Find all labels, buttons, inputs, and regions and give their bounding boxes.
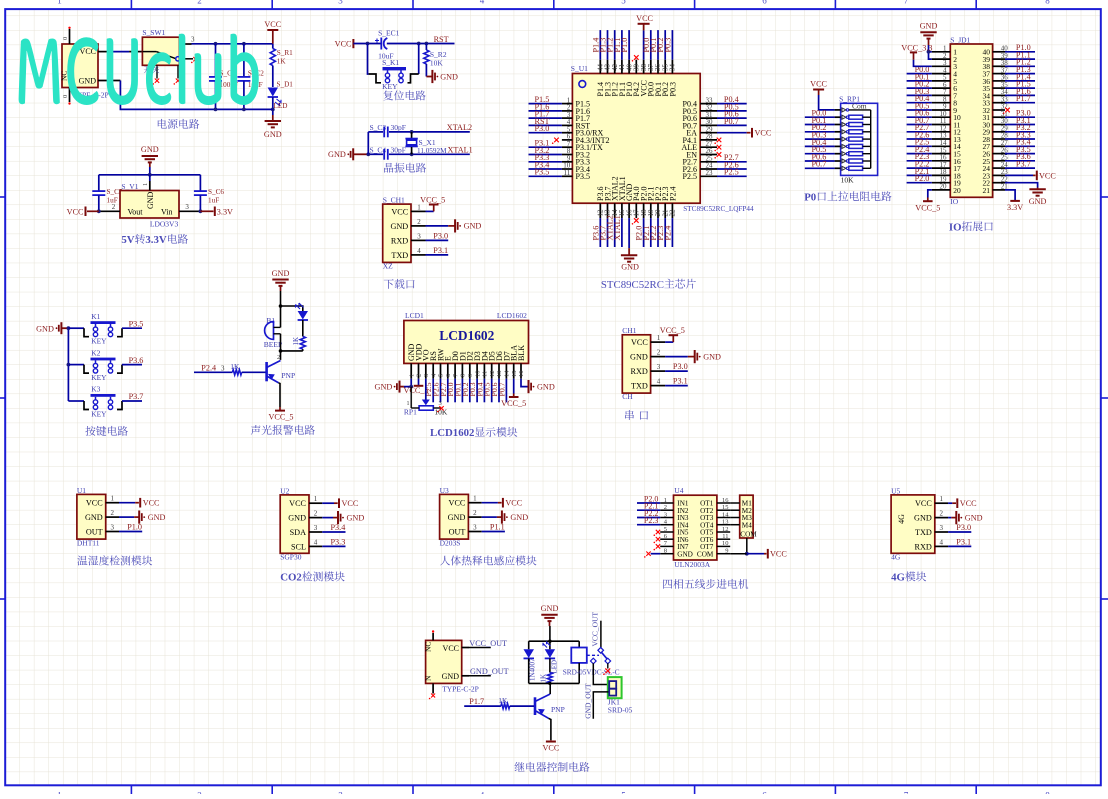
wire reset rail (353, 43, 381, 45)
wire net P3.3 JD1 (1005, 138, 1035, 140)
wire net P1.7 (529, 117, 562, 119)
svg-text:4: 4 (417, 247, 421, 255)
svg-text:TYPE-C-2P: TYPE-C-2P (442, 685, 479, 694)
resistor S_R2 10K (425, 44, 427, 51)
wire net P0.4 JD1 (907, 102, 932, 104)
pin 1 GND of LDO (149, 181, 151, 191)
svg-text:DHT11: DHT11 (77, 539, 100, 548)
wire right hook K2 (117, 365, 122, 374)
pin 41 P1.1 top of U1 (621, 60, 623, 74)
svg-text:P3.0: P3.0 (433, 231, 448, 240)
caption download port (384, 279, 394, 289)
svg-text:1K: 1K (277, 58, 287, 66)
power port VCC left (87, 210, 99, 212)
svg-text:11.0592M: 11.0592M (417, 147, 447, 155)
pin 25 P2.7 right of U1 (700, 161, 717, 163)
wire net P3.3 of U2 (322, 545, 345, 547)
wire net P3.7 bottom (607, 218, 609, 247)
caption button circuit (85, 426, 95, 436)
connector TYPE-C-2P relay power (426, 640, 462, 683)
svg-text:S_SW1: S_SW1 (142, 28, 165, 37)
pin 10 left of JD1 (932, 116, 951, 118)
svg-text:10K: 10K (430, 58, 444, 67)
svg-text:10K: 10K (841, 176, 855, 185)
wire emitter to VCC_5 (279, 383, 281, 407)
resistor element P0.0 of RP1 (835, 116, 841, 118)
pin 29 right of JD1 (993, 131, 1005, 133)
pin 10 P3.4 left of U1 (562, 168, 573, 170)
svg-text:P2.3: P2.3 (644, 516, 658, 525)
svg-text:3: 3 (185, 203, 189, 211)
svg-text:K2: K2 (91, 348, 100, 357)
pin 21 right of JD1 (993, 189, 1005, 191)
pin 30 right of JD1 (993, 124, 1005, 126)
power port GND (bar right) (501, 516, 503, 518)
pin 16 OT1 of U4 (717, 502, 730, 504)
svg-text:P3.5: P3.5 (129, 319, 144, 328)
svg-text:11: 11 (564, 169, 571, 177)
svg-text:P3.5: P3.5 (576, 172, 590, 181)
power port VCC_5 pin15 BLA (513, 379, 515, 394)
svg-text:VCC_5: VCC_5 (660, 326, 685, 335)
connector JK1 SRD-05 (608, 677, 622, 698)
svg-text:14: 14 (722, 511, 729, 518)
svg-text:VCC: VCC (443, 644, 459, 653)
pin 24 right of JD1 (993, 167, 1005, 169)
svg-text:VCC: VCC (289, 499, 306, 508)
svg-text:GND: GND (272, 269, 290, 278)
wire net P3.2 (529, 154, 562, 156)
svg-text:1: 1 (110, 495, 114, 503)
svg-text:16: 16 (518, 370, 525, 377)
pin 43 P1.3 top of U1 (607, 60, 609, 74)
svg-text:P3.0: P3.0 (956, 523, 971, 532)
svg-text:TXD: TXD (391, 251, 408, 260)
svg-text:GND: GND (141, 145, 159, 154)
svg-text:2: 2 (473, 509, 477, 517)
LED of alarm (298, 311, 308, 320)
svg-text:N: N (423, 675, 432, 681)
svg-text:GND: GND (965, 513, 983, 522)
svg-text:1: 1 (142, 183, 149, 186)
svg-text:VCC_5: VCC_5 (420, 195, 445, 204)
pin 21 P2.3 bottom of U1 (664, 203, 666, 218)
wire relay bottom rail (529, 682, 580, 684)
svg-text:VCC: VCC (631, 338, 648, 347)
pin stub top of TYPE-C (69, 29, 71, 44)
svg-text:RXD: RXD (631, 367, 648, 376)
svg-text:D203S: D203S (440, 539, 461, 548)
svg-text:16: 16 (722, 497, 729, 504)
svg-text:U4: U4 (674, 486, 683, 495)
wire relay top rail (529, 640, 580, 642)
pin 3 TXD of U5 (935, 531, 948, 533)
wire net P0.2 LCD (469, 379, 471, 403)
svg-text:1: 1 (417, 203, 421, 211)
wire buzzer bottom to rail (280, 334, 282, 351)
wire net P3.3 (529, 161, 562, 163)
wire net P1.2 top (614, 30, 616, 60)
pin 6 P4.3/INT2 left of U1 (562, 139, 573, 141)
svg-text:4: 4 (657, 378, 661, 386)
svg-text:GND_OUT: GND_OUT (470, 667, 509, 676)
svg-text:P1.7: P1.7 (469, 697, 484, 706)
wire net P2.2 JD1 (907, 167, 932, 169)
wire net P3.4 JD1 (1005, 145, 1035, 147)
pin 32 P0.5 right of U1 (700, 110, 717, 112)
svg-text:GND: GND (347, 513, 365, 522)
svg-text:LCD1602: LCD1602 (439, 328, 494, 343)
wire R2 to ground (425, 64, 427, 77)
power port GND left of LCD (400, 386, 404, 388)
pin 38 VCC top of U1 (643, 60, 645, 74)
pin 3 OUT of U1 (106, 531, 119, 533)
wire net P2.0 JD1 (907, 182, 932, 184)
svg-text:1: 1 (57, 791, 62, 794)
wire LCD GND pin1 to port (410, 379, 412, 387)
svg-text:SDA: SDA (290, 528, 306, 537)
svg-text:GND: GND (1029, 197, 1047, 206)
pin 34 P0.3 top of U1 (671, 60, 673, 74)
svg-text:P3.6: P3.6 (129, 356, 144, 365)
svg-text:15: 15 (511, 371, 518, 378)
svg-text:2: 2 (416, 374, 423, 377)
power port VCC of U3 (498, 502, 502, 504)
wire right hook K3 (117, 401, 122, 410)
wire net P1.3 JD1 (1005, 73, 1035, 75)
power port GND of U2 (333, 517, 338, 519)
svg-text:4G: 4G (891, 553, 901, 562)
wire pin21 to 3.3V port (1005, 190, 1015, 201)
svg-text:7: 7 (904, 0, 909, 5)
svg-text:VCC_5: VCC_5 (915, 203, 940, 212)
wire XTAL2 rail (368, 131, 383, 133)
svg-text:4: 4 (314, 538, 318, 546)
svg-text:COM: COM (697, 550, 714, 558)
svg-text:1K: 1K (230, 362, 240, 371)
pin 2 GND of U5 (935, 517, 948, 519)
pin 15 left of JD1 (932, 153, 951, 155)
wire net P0.1 top (657, 30, 659, 60)
pin 17 left of JD1 (932, 167, 951, 169)
pin 3 SDA of U2 (309, 531, 322, 533)
svg-text:GND: GND (442, 672, 460, 681)
pin 14 OT3 of U4 (717, 517, 730, 519)
svg-text:P2.0: P2.0 (915, 174, 930, 183)
svg-text:P0.7: P0.7 (812, 160, 827, 169)
pin 4 SCL of U2 (309, 545, 322, 547)
wire EA to VCC port (717, 132, 747, 134)
svg-text:GND: GND (703, 352, 721, 361)
no-connect pin 32 (1005, 108, 1010, 113)
svg-text:VCC: VCC (960, 499, 977, 508)
svg-text:TXD: TXD (915, 528, 932, 537)
svg-text:S_C6: S_C6 (208, 188, 224, 196)
pin 9 COM of U4 (717, 553, 730, 555)
wire net XTAL2 bottom (614, 218, 616, 247)
wire net P0.0 LCD (454, 379, 456, 403)
wire net P0.3 JD1 (907, 94, 932, 96)
pin 15 OT2 of U4 (717, 509, 730, 511)
svg-text:P3.1: P3.1 (956, 537, 971, 546)
resistor element P0.5 of RP1 (835, 153, 841, 155)
wire pin20 to VCC_5 (928, 190, 932, 198)
svg-text:P1.7: P1.7 (1016, 94, 1031, 103)
svg-text:GND: GND (36, 324, 54, 333)
svg-text:U2: U2 (280, 486, 289, 495)
svg-text:S_CH1: S_CH1 (383, 195, 405, 204)
svg-text:ULN2003A: ULN2003A (674, 560, 710, 569)
svg-text:3: 3 (657, 363, 661, 371)
pin 31 right of JD1 (993, 116, 1005, 118)
svg-text:LCD1602: LCD1602 (430, 427, 474, 439)
caption serial port (625, 410, 634, 420)
svg-text:8: 8 (460, 374, 467, 377)
svg-text:15: 15 (722, 504, 729, 511)
svg-text:7: 7 (904, 791, 909, 794)
pin 30 P0.7 right of U1 (700, 124, 717, 126)
svg-text:5: 5 (664, 526, 667, 533)
svg-text:VCC: VCC (335, 39, 352, 48)
pin 1 IN1 of U4 (660, 502, 673, 504)
wire net P1.2 JD1 (1005, 65, 1035, 67)
pin 35 P0.2 top of U1 (664, 60, 666, 74)
pin 3 OUT of U3 (468, 531, 481, 533)
ground GND power circuit (272, 115, 274, 121)
wire collector to bottom rail (549, 683, 551, 694)
pin 29 EA right of U1 (700, 132, 717, 134)
wire net P0.7 (717, 124, 747, 126)
wire net P0.0 JD1 (907, 73, 932, 75)
pin 11 OT6 of U4 (717, 538, 730, 540)
svg-text:GND: GND (390, 222, 408, 231)
pin 12 OT5 of U4 (717, 531, 730, 533)
pin 10 OT7 of U4 (717, 545, 730, 547)
svg-text:P2.5: P2.5 (724, 168, 739, 177)
wire emitter to VCC (549, 718, 551, 740)
wire right hook K1 (117, 328, 122, 337)
pin 14 left of JD1 (932, 145, 951, 147)
wire GND down to diode rail (549, 626, 551, 641)
svg-text:2: 2 (277, 355, 280, 361)
svg-text:P2.5: P2.5 (683, 172, 697, 181)
ground GND reset (bar style) (426, 76, 432, 78)
resistor element P0.7 of RP1 (835, 167, 841, 169)
power port VCC stepper (764, 553, 767, 555)
svg-text:VCC_3.3: VCC_3.3 (901, 44, 932, 53)
svg-text:P3.4: P3.4 (331, 523, 346, 532)
svg-text:SGP30: SGP30 (280, 553, 302, 562)
connector M1-M4 motor header (740, 495, 753, 538)
pin 42 P1.2 top of U1 (614, 60, 616, 74)
wire net P2.5 LCD (432, 379, 434, 403)
wire left hook K2 (68, 364, 84, 366)
pin 20 left of JD1 (932, 189, 951, 191)
wire net P2.6 (717, 168, 747, 170)
pin M2 motor header (730, 509, 740, 511)
pin 2 P1.6 left of U1 (562, 110, 573, 112)
svg-text:12: 12 (722, 526, 729, 533)
svg-text:K3: K3 (91, 385, 100, 394)
pin 12 P3.6 bottom of U1 (599, 203, 601, 218)
svg-text:P3.3: P3.3 (331, 537, 346, 546)
svg-text:12: 12 (489, 371, 496, 378)
wire net P2.5 JD1 (907, 145, 932, 147)
pin 8 P3.2 left of U1 (562, 154, 573, 156)
wire net P1.5 (529, 103, 562, 105)
svg-text:3.3V: 3.3V (145, 234, 166, 246)
svg-text:0: 0 (62, 37, 69, 40)
pin 22 P2.4 bottom of U1 (671, 203, 673, 218)
svg-text:GND: GND (510, 513, 528, 522)
svg-text:LCD1602: LCD1602 (497, 311, 527, 320)
pin 31 P0.6 right of U1 (700, 117, 717, 119)
svg-text:4G: 4G (897, 514, 906, 524)
svg-text:3: 3 (940, 524, 944, 532)
diode 1N4007 (528, 641, 530, 649)
capacitor S_C2 10uF (243, 44, 245, 77)
svg-text:XTAL1: XTAL1 (613, 215, 622, 240)
pin 28 P4.1 right of U1 (700, 139, 717, 141)
pin 17 P4.0 bottom of U1 (635, 203, 637, 218)
wire right branch to C6 (199, 175, 201, 191)
svg-text:GND: GND (621, 263, 639, 272)
wire net P2.3 JD1 (907, 160, 932, 162)
svg-text:GND_OUT: GND_OUT (583, 683, 592, 719)
svg-text:1: 1 (57, 0, 62, 5)
svg-text:K1: K1 (91, 312, 100, 321)
wire net P1.5 JD1 (1005, 87, 1035, 89)
svg-text:13: 13 (496, 371, 503, 378)
wire net P2.6 JD1 (907, 138, 932, 140)
wire GND_OUT (462, 675, 469, 677)
svg-text:S_K1: S_K1 (382, 58, 399, 67)
svg-text:XTAL2: XTAL2 (447, 123, 472, 132)
svg-text:VCC: VCC (810, 80, 827, 89)
wire net P0.3 LCD (476, 379, 478, 403)
svg-text:1: 1 (407, 401, 410, 407)
pin M3 motor header (730, 517, 740, 519)
wire net P3.0 JD1 (1005, 116, 1035, 118)
pin 32 right of JD1 (993, 109, 1005, 111)
svg-text:RST: RST (434, 35, 449, 44)
wire net P0.0 top (650, 30, 652, 60)
wire net P0.4 LCD (483, 379, 485, 403)
wire net P1.1 of U3 (482, 531, 505, 533)
svg-text:5: 5 (438, 374, 445, 377)
svg-text:3: 3 (439, 400, 442, 407)
wire net P3.2 JD1 (1005, 131, 1035, 133)
svg-text:VCC: VCC (67, 207, 84, 216)
svg-text:SRD-05VDC-SL-C: SRD-05VDC-SL-C (563, 669, 620, 677)
svg-text:1: 1 (664, 497, 667, 504)
svg-text:1: 1 (940, 495, 944, 503)
pin 40 P1.0 top of U1 (628, 60, 630, 74)
svg-text:Vin: Vin (161, 208, 173, 217)
wire net P0.5 JD1 (907, 109, 932, 111)
pin 9 left of JD1 (932, 109, 951, 111)
svg-text:VCC: VCC (915, 499, 932, 508)
power port GND (bar right) (454, 225, 456, 227)
pin 19 left of JD1 (932, 182, 951, 184)
svg-text:KEY: KEY (91, 337, 107, 346)
pin 16 left of JD1 (932, 160, 951, 162)
svg-text:6: 6 (762, 0, 767, 5)
wire net P2.5 (717, 175, 747, 177)
pin 37 P0.0 top of U1 (650, 60, 652, 74)
svg-text:GND: GND (288, 514, 306, 523)
power port 3.3V right (200, 210, 213, 212)
svg-text:20: 20 (953, 186, 961, 195)
svg-text:S_D1: S_D1 (277, 81, 294, 89)
svg-text:3.3V: 3.3V (217, 207, 233, 216)
svg-text:9: 9 (467, 374, 474, 377)
switch bottom stubs with no-connect (156, 65, 158, 78)
pin 5 IN5 of U4 (660, 531, 673, 533)
pin 7 IN7 of U4 (660, 545, 673, 547)
caption alarm circuit (251, 425, 261, 435)
pin 20 P2.2 bottom of U1 (657, 203, 659, 218)
wire net P3.5 JD1 (1005, 153, 1035, 155)
resistor element P0.1 of RP1 (835, 124, 841, 126)
svg-text:GND: GND (440, 72, 458, 81)
pin 35 right of JD1 (993, 87, 1005, 89)
svg-text:CO2: CO2 (280, 572, 302, 584)
svg-text:OUT: OUT (449, 527, 466, 536)
svg-text:P3.0: P3.0 (535, 124, 550, 133)
wire net P0.2 JD1 (907, 87, 932, 89)
wire net P2.6 LCD (440, 379, 442, 403)
caption power circuit (158, 119, 167, 129)
pin 13 left of JD1 (932, 138, 951, 140)
svg-text:20: 20 (940, 183, 948, 191)
svg-text:21: 21 (983, 186, 991, 195)
potentiometer RP1 10K (419, 406, 433, 410)
wire VCC_OUT (462, 647, 469, 649)
pin 8 left of JD1 (932, 102, 951, 104)
svg-text:2: 2 (110, 509, 114, 517)
wire BLK pin16 to GND port (521, 379, 529, 387)
svg-text:11: 11 (722, 533, 728, 540)
pin 36 right of JD1 (993, 80, 1005, 82)
power port GND of U1 (134, 516, 139, 518)
power port GND of U5 (951, 517, 956, 519)
ground GND below U1 (628, 248, 630, 255)
wire COM of header down (746, 538, 748, 554)
pin 9 P3.3 left of U1 (562, 161, 573, 163)
svg-text:13: 13 (722, 519, 729, 526)
power port GND (bar right) (694, 356, 696, 358)
wire net P0.5 (717, 110, 747, 112)
wire net P3.1 of U5 (948, 545, 971, 547)
power port GND (bar right) (138, 516, 140, 518)
pin 5 P3.0/RX left of U1 (562, 132, 573, 134)
wire XTAL1 rail (368, 153, 383, 155)
wire collector to rail (280, 351, 282, 360)
svg-text:P0.7: P0.7 (497, 382, 506, 396)
pin 27 right of JD1 (993, 145, 1005, 147)
svg-text:CH1: CH1 (622, 326, 636, 335)
wire net P1.6 JD1 (1005, 94, 1035, 96)
svg-text:1: 1 (657, 334, 661, 342)
wire net P0.1 LCD (461, 379, 463, 403)
svg-text:VCC: VCC (755, 129, 772, 138)
svg-text:P3.0: P3.0 (673, 362, 688, 371)
pin 34 right of JD1 (993, 94, 1005, 96)
wire net P0.6 LCD (498, 379, 500, 403)
svg-text:GND: GND (85, 513, 103, 522)
svg-text:8: 8 (1045, 791, 1050, 794)
